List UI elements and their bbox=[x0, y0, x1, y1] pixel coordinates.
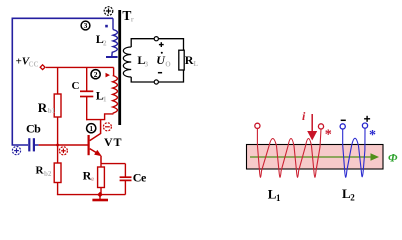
transistor VT bbox=[88, 120, 102, 164]
resistor Rb2 bbox=[54, 163, 61, 183]
inductor L3 winding bbox=[123, 47, 131, 77]
inductor L1 (core) winding bbox=[257, 128, 321, 177]
node 2 circled bbox=[91, 70, 100, 79]
polarity mark circled plus (blue, at Cb) bbox=[12, 147, 20, 155]
output loop wires bbox=[131, 39, 183, 51]
wire Ce top stem bbox=[124, 164, 126, 177]
svg-text:b1: b1 bbox=[48, 107, 56, 115]
node 1 circled bbox=[87, 124, 96, 133]
svg-text:2: 2 bbox=[94, 70, 98, 79]
core bar (right diagram) bbox=[247, 145, 384, 170]
wire L1 top stem bbox=[113, 67, 115, 75]
svg-text:1: 1 bbox=[103, 96, 107, 104]
wire emitter horizontal bbox=[101, 163, 125, 165]
terminal T-bar at L2 bottom bbox=[106, 56, 118, 58]
arrow current i bbox=[311, 114, 313, 133]
svg-text:O: O bbox=[165, 61, 171, 69]
svg-text:*: * bbox=[369, 128, 376, 143]
svg-text:3: 3 bbox=[84, 21, 88, 30]
svg-text:1: 1 bbox=[276, 193, 281, 203]
wire blue feedback path from L2 top to Cb bbox=[12, 18, 113, 145]
wire Rb2 bottom stem bbox=[57, 183, 59, 195]
svg-text:e: e bbox=[91, 175, 94, 183]
wire Rb1 top stem bbox=[57, 67, 59, 94]
capacitor C stem bottom bbox=[86, 97, 88, 121]
resistor RL bbox=[179, 50, 184, 70]
terminal top bbox=[154, 37, 158, 41]
wire L2 top stem bbox=[112, 18, 114, 29]
polarity mark circled plus (red, at base) bbox=[59, 147, 67, 155]
wire base bbox=[39, 144, 88, 146]
svg-text:R: R bbox=[185, 53, 194, 67]
wire bottom rail bbox=[57, 194, 126, 196]
svg-text:*: * bbox=[325, 128, 332, 143]
wire Ce bottom stem bbox=[124, 180, 126, 194]
wire Rb2 top stem bbox=[57, 145, 59, 163]
svg-text:L: L bbox=[193, 60, 198, 68]
svg-text:2: 2 bbox=[350, 193, 355, 203]
wire L1 bottom jog bbox=[105, 113, 113, 119]
polarity mark circled plus (top, black) bbox=[104, 7, 113, 16]
resistor Rb1 bbox=[54, 94, 61, 117]
wire Re top stem bbox=[100, 164, 102, 167]
svg-text:Ce: Ce bbox=[133, 171, 147, 185]
label minus output bbox=[158, 72, 162, 74]
inductor L1 winding bbox=[113, 76, 118, 114]
svg-text:b2: b2 bbox=[44, 170, 52, 178]
svg-text:VT: VT bbox=[104, 135, 122, 149]
resistor Re bbox=[98, 167, 105, 188]
ground bbox=[99, 195, 101, 200]
transformer core bar bbox=[118, 10, 121, 125]
svg-text:C: C bbox=[72, 80, 80, 92]
capacitor C stem top bbox=[86, 67, 88, 91]
inductor L2 winding bbox=[112, 30, 118, 57]
junction ground node bbox=[97, 192, 103, 198]
polarity dot of L1 bbox=[106, 73, 111, 78]
label plus of L2 bbox=[364, 116, 370, 122]
svg-text:R: R bbox=[38, 100, 48, 115]
label plus output bbox=[159, 42, 164, 47]
svg-text:2: 2 bbox=[103, 40, 107, 48]
svg-text:r: r bbox=[131, 15, 134, 23]
terminal a of L1 bbox=[255, 123, 260, 128]
inductor L2 (core) winding bbox=[343, 128, 365, 177]
label minus of L2 bbox=[341, 119, 346, 121]
polarity mark circled minus (red, at collector) bbox=[103, 123, 111, 131]
capacitor Ce bbox=[120, 177, 132, 180]
wire Re bottom stem bbox=[100, 188, 102, 195]
svg-text:Cb: Cb bbox=[26, 122, 41, 136]
flux line phi bbox=[250, 156, 371, 158]
svg-text:3: 3 bbox=[145, 61, 149, 69]
capacitor Cb bbox=[29, 138, 34, 151]
junction base node bbox=[56, 143, 60, 147]
terminal c of L2 bbox=[340, 124, 345, 129]
terminal d of L2 bbox=[362, 123, 367, 128]
terminal b of L1 bbox=[318, 124, 323, 129]
svg-text:1: 1 bbox=[89, 124, 93, 133]
svg-text:Φ: Φ bbox=[388, 151, 398, 165]
wire tank bottom bbox=[86, 119, 105, 121]
wire Rb1 bottom stem bbox=[57, 117, 59, 145]
terminal diamond +Vcc bbox=[40, 65, 45, 70]
wire Vcc rail bbox=[46, 66, 114, 68]
polarity dot of L2 bbox=[105, 25, 108, 28]
terminal bottom bbox=[154, 80, 158, 84]
node 3 circled bbox=[81, 21, 90, 30]
capacitor C bbox=[80, 91, 93, 96]
svg-text:CC: CC bbox=[29, 61, 39, 69]
